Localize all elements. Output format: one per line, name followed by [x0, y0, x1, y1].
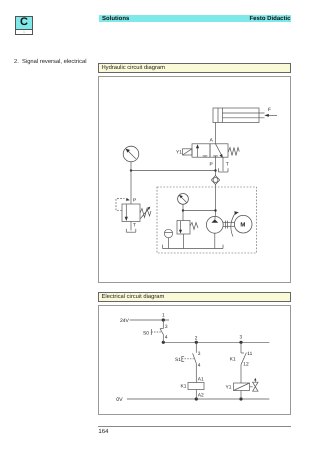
svg-text:F: F [268, 107, 271, 113]
svg-text:24V: 24V [120, 318, 130, 324]
svg-text:S1: S1 [175, 357, 181, 363]
svg-text:A: A [210, 138, 214, 144]
svg-text:P: P [210, 162, 213, 168]
svg-text:A1: A1 [198, 376, 204, 382]
svg-text:0V: 0V [116, 397, 123, 403]
svg-text:Y1: Y1 [226, 384, 232, 390]
svg-text:T: T [133, 223, 136, 229]
svg-text:A2: A2 [198, 393, 204, 399]
svg-text:S0: S0 [143, 330, 149, 336]
svg-text:T: T [226, 162, 229, 168]
svg-text:K1: K1 [181, 383, 187, 389]
svg-text:M: M [240, 222, 245, 229]
svg-text:3: 3 [165, 324, 168, 330]
svg-text:4: 4 [198, 362, 201, 368]
svg-text:2: 2 [195, 335, 198, 341]
svg-text:3: 3 [198, 351, 201, 357]
svg-text:1: 1 [162, 313, 165, 319]
svg-text:Y1: Y1 [176, 150, 182, 156]
svg-text:P: P [133, 198, 136, 204]
svg-text:11: 11 [247, 351, 252, 357]
svg-text:3: 3 [240, 334, 243, 340]
svg-text:K1: K1 [230, 356, 236, 362]
svg-text:4: 4 [165, 334, 168, 340]
svg-text:12: 12 [243, 361, 249, 367]
